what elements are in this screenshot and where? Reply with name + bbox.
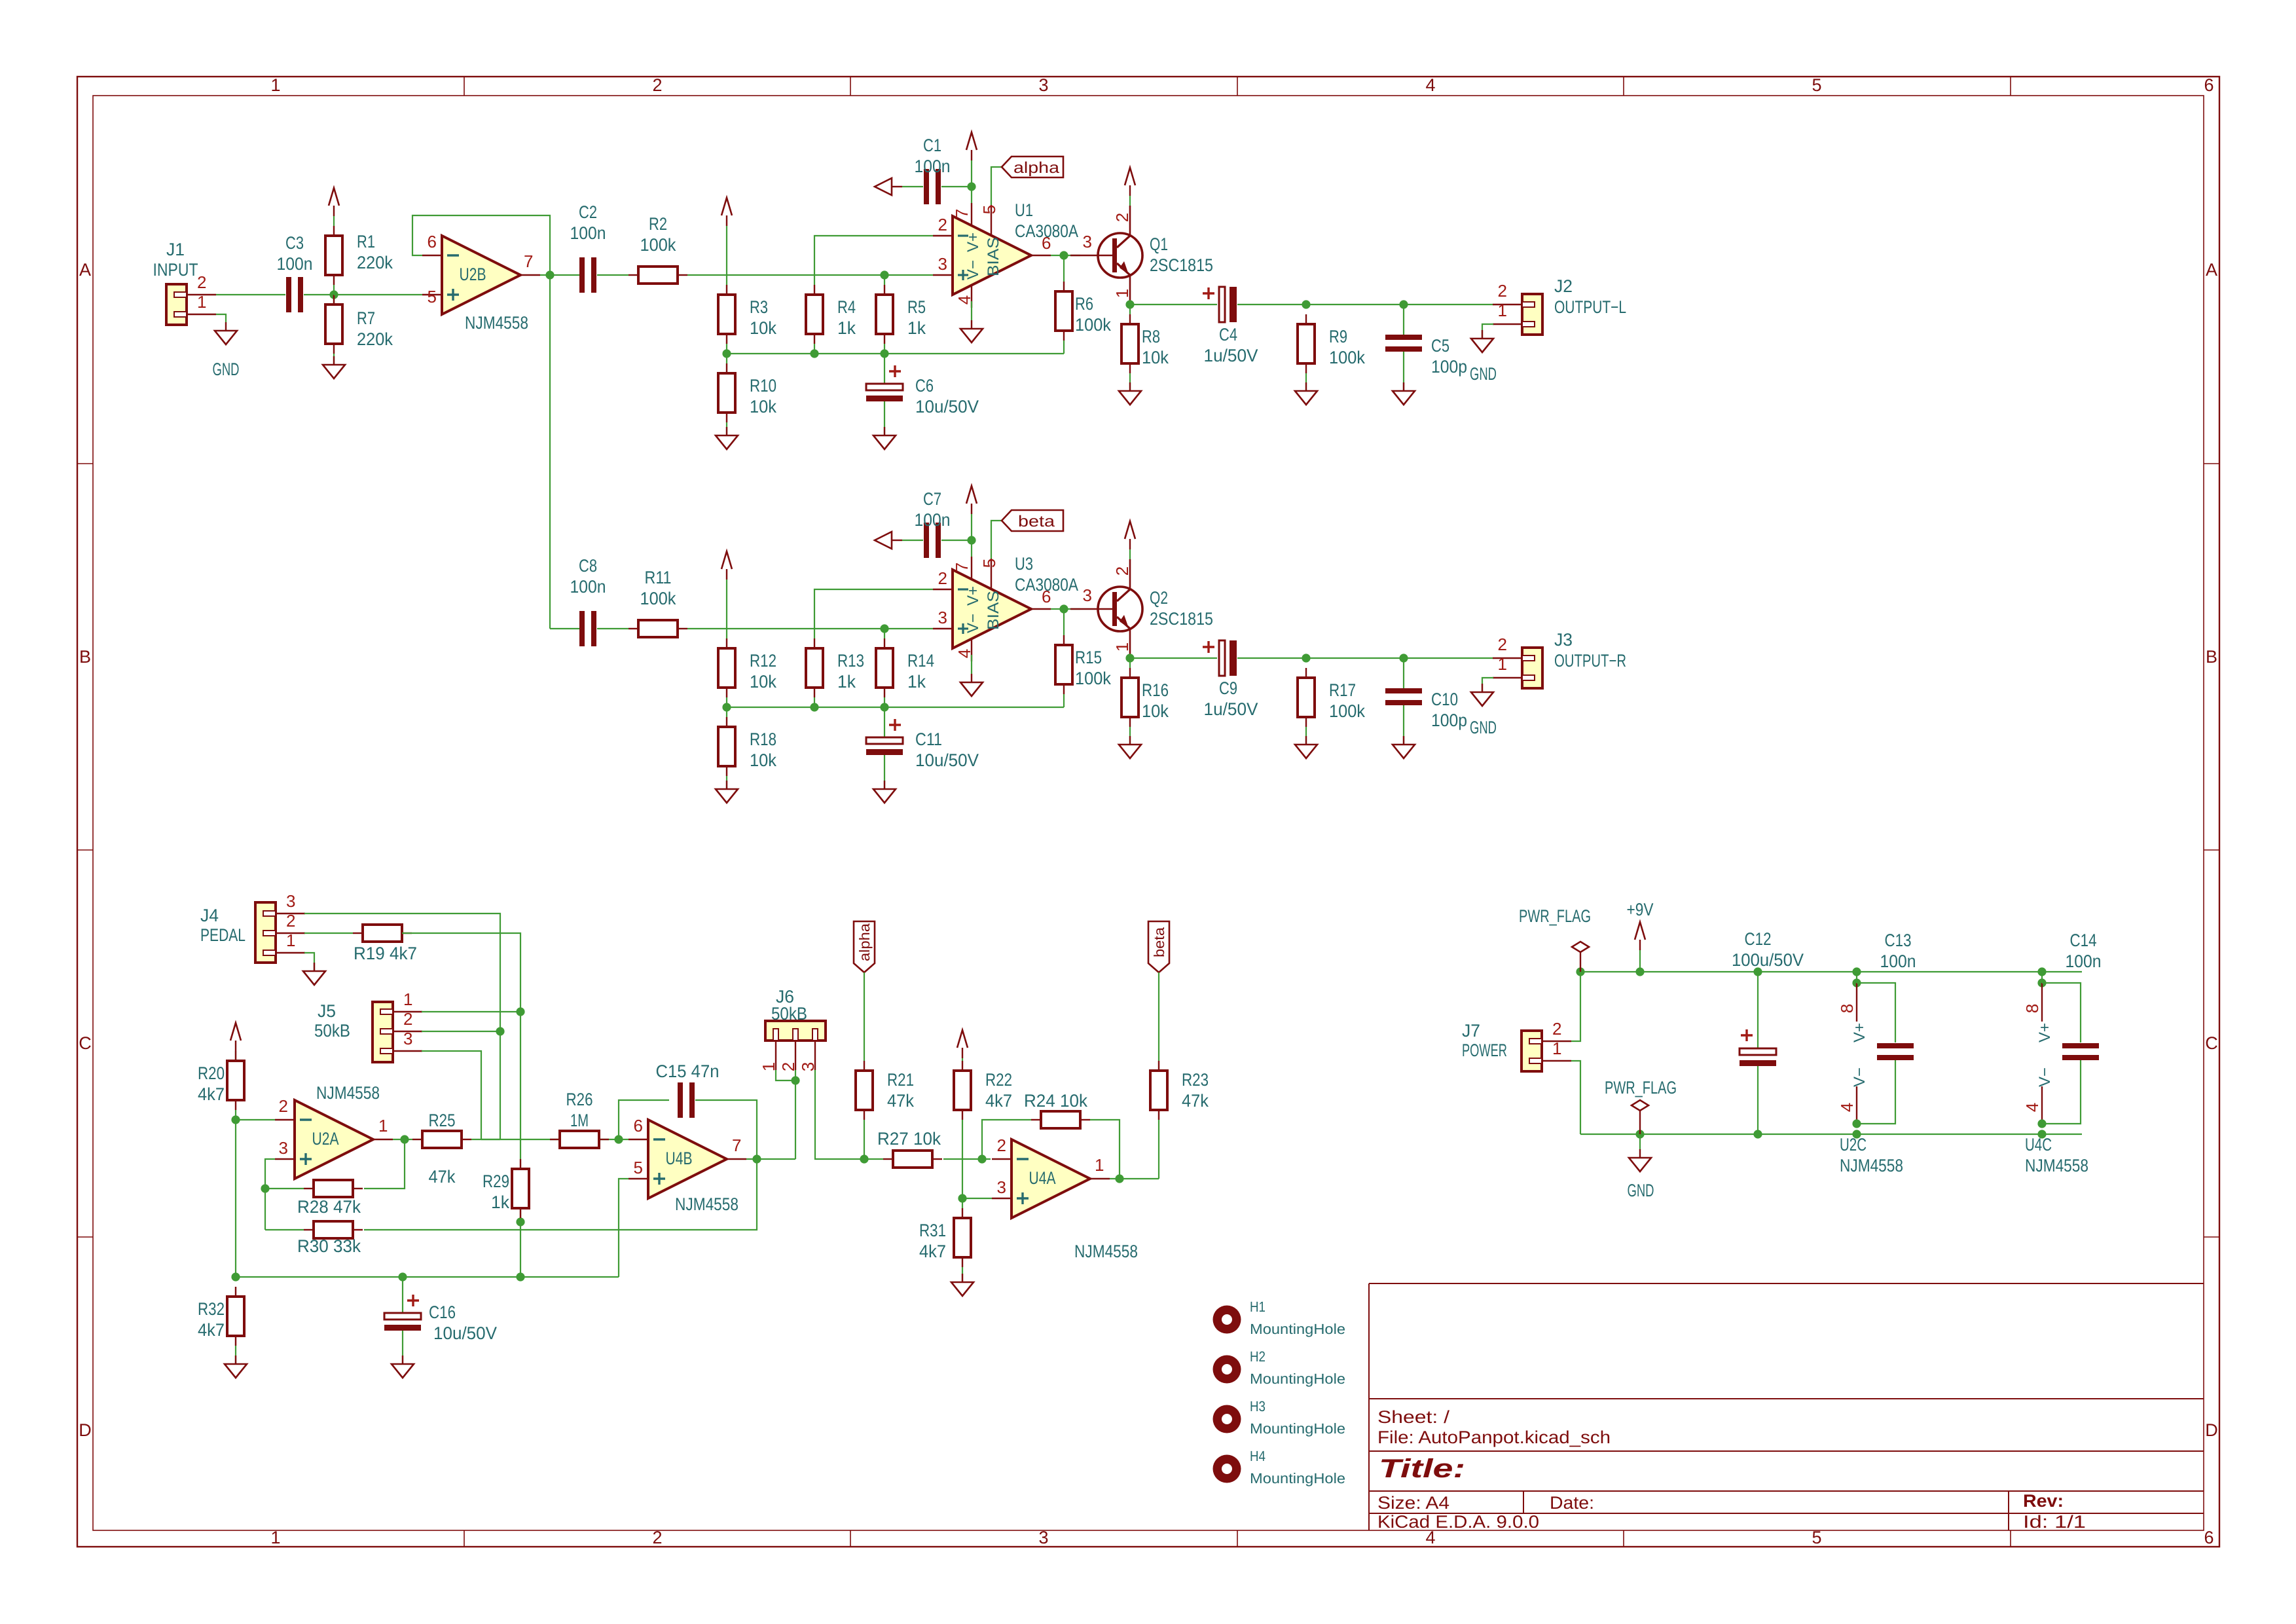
connector J5 [373,1002,393,1062]
wire [726,344,727,363]
wire [236,1119,275,1120]
global label alpha [1002,157,1063,177]
ground [884,427,885,435]
wire [422,1031,500,1032]
wire [597,274,629,276]
svg-text:R6: R6 [1075,294,1093,314]
ground [1403,382,1404,391]
svg-text:Q2: Q2 [1150,588,1168,608]
svg-text:3: 3 [997,1177,1006,1197]
svg-text:Size: A4: Size: A4 [1377,1493,1449,1513]
node junction [1302,300,1310,308]
svg-text:1u/50V: 1u/50V [1204,699,1258,719]
wire [1571,972,1580,1041]
svg-text:1: 1 [197,292,206,312]
wire [405,1139,412,1140]
wire output row [1130,657,1217,659]
svg-text:R8: R8 [1142,327,1160,346]
wire [1305,727,1307,745]
resistor R16 [1121,678,1139,717]
svg-text:U3: U3 [1015,554,1033,574]
svg-text:Sheet: /: Sheet: / [1377,1407,1450,1427]
svg-text:POWER: POWER [1462,1041,1507,1060]
svg-text:100n: 100n [2066,951,2102,971]
node junction [516,1272,524,1281]
wire [235,1346,236,1364]
power +9V arrow [1125,521,1135,539]
wire GND rail [1580,1134,2082,1135]
svg-text:D: D [79,1420,92,1440]
svg-text:PWR_FLAG: PWR_FLAG [1519,906,1591,926]
svg-text:8: 8 [2022,1004,2042,1013]
svg-text:4k7: 4k7 [985,1091,1012,1111]
svg-text:V−: V− [2036,1067,2054,1087]
svg-text:2: 2 [1498,635,1507,654]
svg-text:1k: 1k [491,1192,509,1212]
node junction [545,270,554,279]
wire [1306,657,1404,659]
connector J6 [765,1021,826,1041]
svg-text:V−: V− [1851,1067,1868,1087]
svg-text:C12: C12 [1745,929,1772,949]
svg-text:100n: 100n [1880,951,1916,971]
resistor R4 [806,295,823,334]
svg-text:7: 7 [732,1135,741,1155]
svg-text:C4: C4 [1219,325,1237,344]
op-amp U4C power pins [2041,983,2043,1022]
wire [726,226,727,285]
svg-text:R21: R21 [887,1070,914,1090]
svg-text:2: 2 [652,1528,662,1547]
op-amp U4A [1011,1139,1090,1218]
svg-text:Date:: Date: [1550,1493,1594,1513]
node junction [1125,654,1134,662]
svg-text:10k: 10k [750,318,776,338]
svg-text:MountingHole: MountingHole [1250,1371,1345,1387]
svg-text:47k: 47k [887,1091,914,1111]
svg-text:U2A: U2A [312,1129,339,1149]
wire pin3 row [687,274,933,276]
node junction [1852,1130,1861,1138]
node junction [2037,978,2046,987]
svg-text:1: 1 [1112,642,1132,652]
svg-text:6: 6 [2204,75,2214,95]
node junction [261,1184,269,1192]
svg-text:R11: R11 [645,568,672,587]
svg-text:R9: R9 [1329,327,1347,346]
svg-text:H4: H4 [1250,1448,1266,1464]
svg-text:J1: J1 [166,240,185,259]
node junction [752,1154,761,1163]
wire [1063,694,1065,707]
capacitor C7 [924,523,929,558]
svg-text:7: 7 [952,209,972,218]
svg-text:2: 2 [997,1135,1006,1155]
mounting hole H3 [1213,1405,1241,1433]
svg-text:C15 47n: C15 47n [656,1061,720,1081]
svg-text:V+: V+ [2036,1023,2054,1043]
svg-text:10u/50V: 10u/50V [433,1323,497,1343]
svg-text:10k: 10k [750,397,776,416]
capacitor C9 [1219,640,1225,676]
resistor R14 [876,648,893,688]
wire BIAS [991,521,1002,559]
connector J3 [1522,648,1542,688]
wire [962,1198,992,1199]
resistor R20 [227,1061,244,1100]
wire [1063,255,1065,282]
svg-text:H1: H1 [1250,1299,1266,1315]
svg-text:47k: 47k [1182,1091,1209,1111]
wire [265,1159,275,1230]
wire pin3 row [687,628,933,629]
wire [1482,678,1493,692]
svg-text:GND: GND [1628,1181,1654,1200]
ground [1482,330,1483,339]
svg-text:5: 5 [428,287,437,306]
svg-text:GND: GND [213,360,240,379]
capacitor C13 [1877,1043,1914,1048]
wire [884,354,885,384]
wire C15 feedback [619,1100,669,1139]
svg-text:R15: R15 [1075,648,1102,667]
svg-text:R27 10k: R27 10k [877,1129,941,1149]
svg-text:1u/50V: 1u/50V [1204,346,1258,365]
resistor R9 [1298,324,1315,363]
svg-text:R31: R31 [919,1221,946,1240]
power +9V arrow [721,198,732,215]
svg-text:2: 2 [1112,566,1132,576]
svg-text:5: 5 [634,1158,643,1177]
wire [1403,304,1404,335]
wire [1639,950,1641,972]
mounting hole H1 [1213,1306,1241,1334]
svg-text:2: 2 [652,75,662,95]
wire [884,629,885,638]
op-amp U2A [295,1100,373,1179]
svg-text:R30 33k: R30 33k [297,1236,361,1256]
node junction [1399,654,1408,662]
wire output row [1130,304,1217,305]
svg-text:B: B [79,647,91,667]
svg-text:47k: 47k [429,1167,456,1187]
svg-text:R25: R25 [429,1111,456,1130]
svg-text:100k: 100k [640,235,676,255]
wire [814,697,815,707]
svg-text:U4B: U4B [666,1149,693,1168]
svg-text:GND: GND [1470,718,1497,737]
mounting hole H2 [1213,1356,1241,1384]
node junction [2037,967,2046,976]
wire [941,186,972,187]
svg-text:2: 2 [279,1096,288,1116]
wire [471,1139,500,1140]
capacitor C1 [924,169,929,204]
svg-text:3: 3 [1083,585,1092,605]
transistor Q2 [1098,587,1142,631]
wire [216,314,226,322]
node junction [1753,967,1762,976]
svg-text:1: 1 [1498,654,1507,674]
wire [402,1331,403,1364]
ground [333,356,335,365]
wire [864,972,865,1061]
svg-text:U2B: U2B [460,265,486,284]
wire pin2 row [814,236,933,285]
svg-text:100p: 100p [1431,357,1467,377]
svg-text:J3: J3 [1554,630,1573,650]
node junction [2037,1119,2046,1128]
node junction [398,1272,407,1281]
op-amp U2C power pins [1856,983,1857,1022]
svg-text:A: A [79,260,91,280]
wire [815,1070,864,1159]
wire [1158,972,1159,1061]
wire R30 row [265,1229,304,1230]
wire [235,1110,236,1277]
wire [1403,658,1404,688]
svg-text:PWR_FLAG: PWR_FLAG [1605,1078,1677,1098]
svg-text:100n: 100n [915,157,951,176]
svg-text:4k7: 4k7 [198,1084,225,1104]
resistor R26 [560,1131,599,1148]
svg-text:C8: C8 [579,556,597,576]
svg-text:220k: 220k [357,329,393,349]
svg-text:V+: V+ [964,586,982,606]
svg-text:C: C [79,1033,92,1053]
wire [1403,705,1404,745]
svg-text:2SC1815: 2SC1815 [1150,255,1213,275]
resistor R1 [325,236,342,275]
svg-text:beta: beta [1151,927,1167,957]
svg-text:J2: J2 [1554,276,1573,296]
wire [1404,657,1493,659]
svg-text:100k: 100k [1075,315,1111,335]
svg-text:V+: V+ [1851,1023,1868,1043]
svg-text:C3: C3 [285,233,304,253]
wire feedback U2B [412,215,550,275]
svg-text:1: 1 [270,75,280,95]
node junction [967,536,975,544]
wire +9V rail [1580,971,2082,972]
node junction [880,703,888,711]
wire [1129,373,1131,391]
power +9V arrow [230,1023,241,1041]
wire [943,1158,991,1160]
svg-text:2: 2 [1112,213,1132,222]
wire [864,1158,883,1160]
svg-text:1k: 1k [837,672,856,692]
ground [402,1356,403,1364]
ground [1482,684,1483,692]
wire [1063,609,1065,635]
svg-text:5: 5 [979,205,999,214]
svg-text:1: 1 [270,1528,280,1547]
op-amp U2B [442,236,520,314]
wire pot wiper to R25 [422,1051,481,1139]
resistor R29 [512,1169,529,1208]
wire [962,1058,963,1061]
resistor R5 [876,295,893,334]
node junction [400,1135,409,1143]
capacitor C8 [579,611,585,646]
svg-text:6: 6 [2204,1528,2214,1547]
svg-text:2: 2 [403,1009,412,1029]
node junction [516,1007,524,1016]
svg-text:alpha: alpha [1013,159,1060,177]
resistor R24 [1041,1111,1080,1128]
svg-text:R19 4k7: R19 4k7 [354,944,417,963]
wire bias row [727,353,1064,354]
wire [971,160,972,203]
resistor R27 [893,1151,932,1168]
wire [1129,196,1131,206]
wire [550,628,580,629]
resistor R31 [954,1218,971,1257]
svg-text:5: 5 [1812,1528,1821,1547]
svg-text:8: 8 [1837,1004,1857,1013]
svg-text:INPUT: INPUT [153,260,198,280]
svg-text:Q1: Q1 [1150,234,1168,254]
wire to C8 [549,275,551,629]
svg-text:H2: H2 [1250,1348,1266,1365]
node junction [722,349,731,358]
svg-text:MountingHole: MountingHole [1250,1321,1345,1337]
capacitor C2 [579,257,585,293]
ground [225,322,227,331]
svg-text:BIAS: BIAS [985,591,1002,630]
wire [814,344,815,354]
wire [962,1267,963,1282]
ground [1305,736,1307,745]
wire [1857,1060,1895,1124]
wire [795,1070,796,1159]
wire [333,216,335,226]
wire [1306,304,1404,305]
wire [1403,352,1404,391]
svg-text:C13: C13 [1885,931,1912,950]
svg-text:10k: 10k [750,672,776,692]
svg-text:100n: 100n [915,510,951,530]
svg-text:3: 3 [1038,75,1048,95]
svg-text:10u/50V: 10u/50V [915,397,979,416]
svg-text:U2C: U2C [1840,1135,1867,1154]
node junction [231,1115,240,1124]
transistor Q1 [1098,233,1142,278]
wire [1051,255,1080,256]
ground [726,427,727,435]
svg-text:R4: R4 [837,297,856,317]
capacitor C15 [678,1082,683,1118]
svg-text:R14: R14 [907,651,934,671]
svg-text:R28 47k: R28 47k [297,1197,361,1217]
power +9V arrow [957,1030,968,1048]
capacitor C5 [1385,335,1422,340]
svg-text:CA3080A: CA3080A [1015,221,1078,241]
node junction [810,703,818,711]
wire [864,1120,865,1159]
power +9V arrow [1635,922,1645,940]
node junction [329,290,338,299]
svg-text:4k7: 4k7 [919,1242,946,1261]
wire [2041,972,2043,983]
svg-text:R3: R3 [750,297,768,317]
svg-text:OUTPUT−R: OUTPUT−R [1554,651,1626,671]
ground [971,674,972,682]
ground [971,320,972,329]
svg-text:R32: R32 [198,1299,225,1319]
op-amp U4B [648,1120,727,1198]
svg-text:Id: 1/1: Id: 1/1 [2023,1512,2086,1532]
node junction [860,1154,868,1163]
svg-text:H3: H3 [1250,1398,1266,1414]
capacitor C12 [1740,1048,1776,1055]
svg-text:R13: R13 [837,651,864,671]
svg-text:V+: V+ [964,232,982,252]
svg-text:100n: 100n [570,223,606,243]
svg-text:C7: C7 [923,489,941,509]
node junction [2037,1130,2046,1138]
svg-text:NJM4558: NJM4558 [1840,1156,1903,1175]
capacitor C6 [866,384,903,390]
node junction [1635,967,1644,976]
wire [235,1051,236,1061]
svg-text:R26: R26 [566,1090,593,1109]
resistor R17 [1298,678,1315,717]
svg-text:4k7: 4k7 [198,1320,225,1340]
wire [884,401,885,435]
wire [1237,304,1306,305]
svg-text:B: B [2206,647,2217,667]
wire [1757,1066,1758,1134]
svg-text:R20: R20 [198,1063,225,1083]
svg-text:R10: R10 [750,376,776,396]
wire [1129,305,1131,314]
svg-text:C16: C16 [429,1302,456,1322]
wire [971,655,972,674]
svg-text:1M: 1M [570,1111,589,1130]
svg-text:3: 3 [279,1138,288,1158]
wire [884,755,885,789]
wire [1404,304,1493,305]
svg-text:J7: J7 [1462,1021,1480,1041]
svg-text:Title:: Title: [1379,1454,1465,1483]
ground [1129,736,1131,745]
svg-text:1: 1 [403,989,412,1009]
resistor R21 [856,1071,873,1110]
svg-text:GND: GND [1470,364,1497,384]
svg-text:NJM4558: NJM4558 [316,1083,380,1103]
wire BIAS [991,167,1002,205]
node junction [880,270,888,279]
node junction [1852,1119,1861,1128]
svg-text:A: A [2206,260,2217,280]
svg-text:6: 6 [428,232,437,251]
wire [962,1120,963,1208]
resistor R3 [718,295,735,334]
svg-text:R1: R1 [357,232,375,251]
resistor R13 [806,648,823,688]
wire [1482,324,1493,339]
node junction [1635,1130,1644,1138]
svg-text:C10: C10 [1431,690,1458,709]
svg-text:4: 4 [1425,75,1435,95]
wire [334,294,422,295]
svg-text:3: 3 [1038,1528,1048,1547]
op-amp U1 [953,216,1031,295]
wire [726,422,727,435]
wire [1051,608,1080,610]
